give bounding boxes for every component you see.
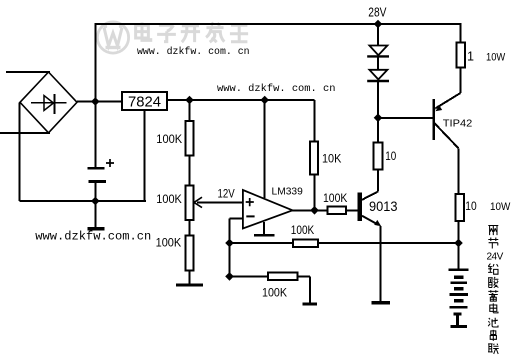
svg-text:7824: 7824 [128, 93, 161, 110]
svg-text:www. dzkfw. com. cn: www. dzkfw. com. cn [217, 83, 335, 95]
svg-text:100K: 100K [156, 192, 182, 206]
svg-text:TIP42: TIP42 [443, 118, 473, 129]
svg-text:10: 10 [385, 149, 396, 163]
svg-text:LM339: LM339 [272, 187, 303, 198]
svg-text:100K: 100K [323, 191, 347, 205]
svg-text:100K: 100K [262, 286, 287, 300]
svg-text:100K: 100K [156, 236, 182, 250]
svg-text:24V: 24V [487, 251, 504, 262]
svg-text:12V: 12V [218, 187, 236, 201]
svg-text:10K: 10K [322, 151, 341, 165]
svg-text:28V: 28V [368, 6, 387, 20]
svg-text:100K: 100K [156, 132, 182, 146]
svg-text:10W: 10W [490, 201, 511, 213]
svg-text:www. dzkfw. com. cn: www. dzkfw. com. cn [137, 46, 250, 57]
svg-text:1: 1 [467, 50, 474, 64]
svg-text:www.dzkfw.com.cn: www.dzkfw.com.cn [35, 229, 151, 243]
svg-text:10W: 10W [486, 52, 505, 64]
svg-text:100K: 100K [291, 223, 314, 237]
svg-text:10: 10 [465, 199, 477, 213]
svg-text:9013: 9013 [369, 199, 398, 215]
